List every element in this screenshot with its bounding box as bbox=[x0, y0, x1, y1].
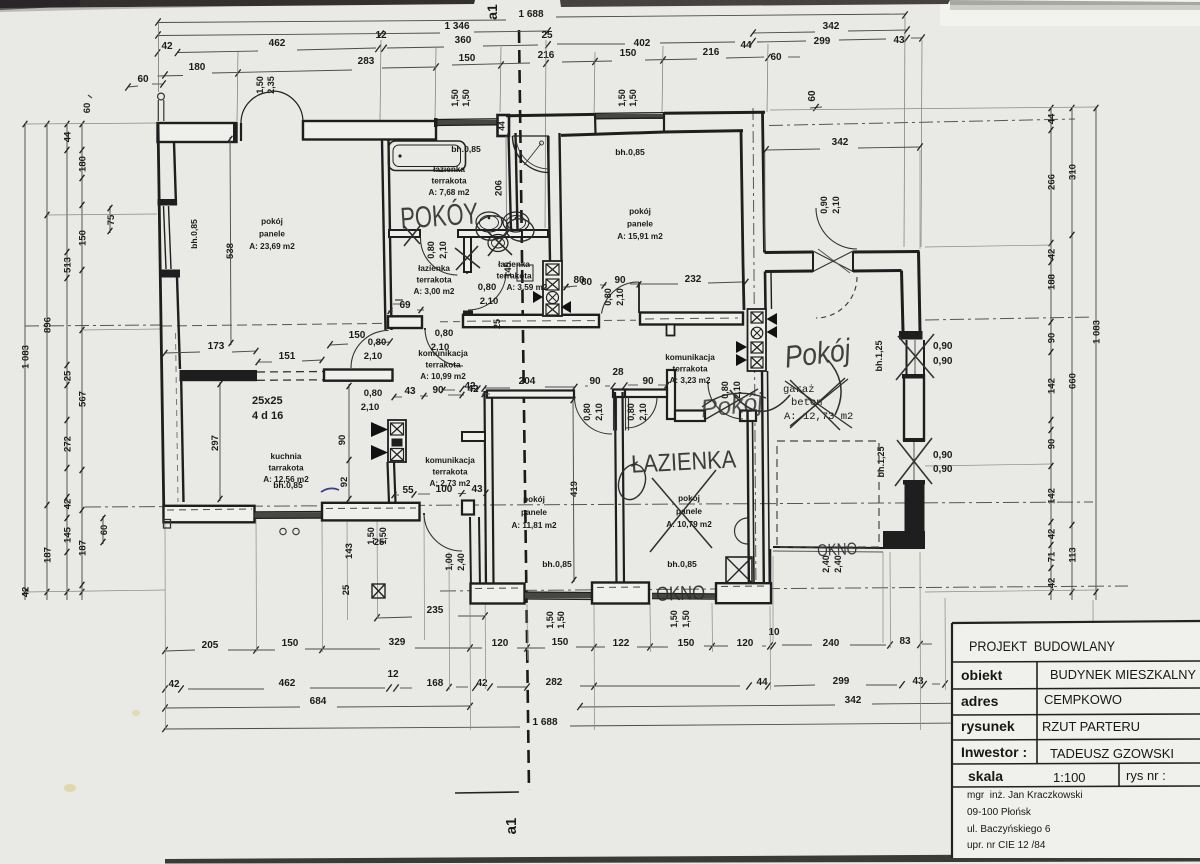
svg-text:0,80: 0,80 bbox=[603, 288, 613, 306]
svg-text:CEMPKOWO: CEMPKOWO bbox=[1044, 692, 1122, 707]
svg-text:0,80: 0,80 bbox=[426, 241, 436, 259]
svg-text:komunikacja: komunikacja bbox=[418, 349, 468, 358]
svg-text:513: 513 bbox=[63, 257, 74, 273]
svg-text:272: 272 bbox=[63, 436, 74, 452]
svg-text:1 083: 1 083 bbox=[1092, 320, 1103, 344]
svg-text:ul. Baczyńskiego 6: ul. Baczyńskiego 6 bbox=[967, 824, 1051, 835]
svg-text:terrakota: terrakota bbox=[425, 361, 460, 370]
svg-text:1,00: 1,00 bbox=[444, 553, 454, 571]
title block bbox=[952, 621, 1200, 858]
svg-text:42: 42 bbox=[63, 499, 74, 510]
svg-text:A: 2,73 m2: A: 2,73 m2 bbox=[430, 479, 471, 488]
svg-text:1 688: 1 688 bbox=[532, 717, 557, 728]
svg-text:25: 25 bbox=[541, 30, 553, 41]
svg-text:bh.0,85: bh.0,85 bbox=[542, 559, 572, 569]
svg-text:PROJEKT BUDOWLANY: PROJEKT BUDOWLANY bbox=[969, 638, 1116, 654]
svg-text:12: 12 bbox=[387, 669, 399, 680]
svg-text:2,10: 2,10 bbox=[361, 402, 380, 413]
svg-text:12: 12 bbox=[375, 30, 387, 41]
svg-text:180: 180 bbox=[189, 62, 206, 73]
svg-text:122: 122 bbox=[613, 638, 630, 649]
svg-text:180: 180 bbox=[78, 156, 89, 172]
svg-text:bh.0,85: bh.0,85 bbox=[667, 559, 697, 569]
svg-text:232: 232 bbox=[685, 274, 702, 285]
svg-text:342: 342 bbox=[845, 695, 862, 706]
svg-text:1 083: 1 083 bbox=[21, 345, 32, 369]
svg-text:0,90: 0,90 bbox=[933, 356, 953, 367]
svg-text:Inwestor :: Inwestor : bbox=[961, 744, 1027, 760]
svg-text:150: 150 bbox=[282, 638, 299, 649]
svg-text:310: 310 bbox=[1068, 164, 1079, 180]
svg-text:bh.0,85: bh.0,85 bbox=[273, 480, 303, 490]
svg-text:25x25: 25x25 bbox=[252, 395, 283, 407]
svg-text:235: 235 bbox=[427, 605, 444, 616]
svg-text:120: 120 bbox=[737, 638, 754, 649]
svg-text:0,80: 0,80 bbox=[364, 388, 383, 399]
left dimension chains bbox=[24, 124, 26, 600]
svg-text:142: 142 bbox=[1047, 378, 1058, 394]
svg-text:1,50: 1,50 bbox=[617, 89, 627, 107]
svg-text:terrakota: terrakota bbox=[432, 468, 467, 477]
svg-text:4 d 16: 4 d 16 bbox=[252, 410, 283, 422]
svg-text:A: 15,91 m2: A: 15,91 m2 bbox=[617, 232, 663, 241]
svg-text:TADEUSZ GZOWSKI: TADEUSZ GZOWSKI bbox=[1050, 746, 1174, 761]
svg-text:komunikacja: komunikacja bbox=[665, 353, 715, 362]
svg-text:2,10: 2,10 bbox=[364, 351, 383, 362]
svg-text:panele: panele bbox=[259, 230, 285, 239]
svg-text:216: 216 bbox=[703, 47, 720, 58]
svg-text:RZUT PARTERU: RZUT PARTERU bbox=[1042, 719, 1140, 734]
svg-text:bh.0,85: bh.0,85 bbox=[615, 147, 645, 157]
svg-text:A: 10,99 m2: A: 10,99 m2 bbox=[420, 372, 466, 381]
svg-text:bh.0,85: bh.0,85 bbox=[451, 144, 481, 154]
svg-text:1,50: 1,50 bbox=[461, 89, 471, 107]
svg-text:2,10: 2,10 bbox=[480, 296, 499, 307]
svg-text:0,80: 0,80 bbox=[626, 403, 636, 421]
svg-text:75: 75 bbox=[106, 214, 117, 225]
svg-text:42: 42 bbox=[1047, 249, 1058, 260]
svg-text:60: 60 bbox=[807, 90, 818, 102]
svg-text:896: 896 bbox=[43, 317, 54, 333]
svg-text:pokój: pokój bbox=[261, 217, 283, 226]
svg-text:71: 71 bbox=[1047, 551, 1058, 562]
svg-text:bh.1,25: bh.1,25 bbox=[874, 340, 884, 371]
svg-text:42: 42 bbox=[464, 381, 476, 392]
svg-text:2,10: 2,10 bbox=[594, 403, 604, 421]
svg-text:09-100 Płońsk: 09-100 Płońsk bbox=[967, 807, 1032, 818]
svg-text:bh.1,25: bh.1,25 bbox=[876, 446, 886, 477]
svg-text:upr. nr CIE 12 /84: upr. nr CIE 12 /84 bbox=[967, 840, 1046, 851]
svg-text:90: 90 bbox=[589, 376, 601, 387]
svg-text:0,90: 0,90 bbox=[933, 464, 953, 475]
svg-text:43: 43 bbox=[893, 35, 905, 46]
svg-text:44: 44 bbox=[497, 121, 507, 131]
svg-text:kuchnia: kuchnia bbox=[271, 452, 302, 461]
svg-text:bh.0,85: bh.0,85 bbox=[189, 219, 199, 249]
svg-text:44: 44 bbox=[740, 40, 752, 51]
svg-text:2,10: 2,10 bbox=[615, 288, 625, 306]
svg-text:28: 28 bbox=[612, 367, 624, 378]
svg-text:1:100: 1:100 bbox=[1053, 770, 1086, 785]
svg-text:1,50: 1,50 bbox=[556, 611, 566, 629]
svg-text:240: 240 bbox=[823, 638, 840, 649]
svg-text:60: 60 bbox=[99, 525, 110, 536]
svg-text:panele: panele bbox=[627, 220, 653, 229]
svg-text:terrakota: terrakota bbox=[496, 272, 531, 281]
svg-text:1 688: 1 688 bbox=[518, 9, 543, 20]
svg-text:terrakota: terrakota bbox=[431, 177, 466, 186]
svg-text:342: 342 bbox=[832, 137, 849, 148]
svg-text:42: 42 bbox=[161, 41, 173, 52]
svg-text:299: 299 bbox=[814, 36, 831, 47]
svg-text:2,10: 2,10 bbox=[831, 196, 841, 214]
svg-text:A: 3,23 m2: A: 3,23 m2 bbox=[670, 376, 711, 385]
svg-text:tarrakota: tarrakota bbox=[268, 464, 303, 473]
svg-text:60: 60 bbox=[770, 52, 782, 63]
svg-text:360: 360 bbox=[455, 35, 472, 46]
svg-text:A: 11,81 m2: A: 11,81 m2 bbox=[511, 521, 557, 530]
svg-text:1,50: 1,50 bbox=[255, 76, 265, 94]
svg-text:2,40: 2,40 bbox=[456, 553, 466, 571]
svg-text:OKNO: OKNO bbox=[656, 582, 706, 606]
svg-text:1,50: 1,50 bbox=[681, 610, 691, 628]
svg-text:90: 90 bbox=[614, 275, 626, 286]
svg-text:a1: a1 bbox=[503, 818, 520, 835]
svg-text:297: 297 bbox=[210, 435, 221, 451]
svg-text:80: 80 bbox=[573, 275, 585, 286]
svg-text:299: 299 bbox=[833, 676, 850, 687]
svg-text:92: 92 bbox=[339, 477, 350, 488]
right dimension chains bbox=[1050, 108, 1052, 600]
svg-text:mgr inż. Jan Kraczkowski: mgr inż. Jan Kraczkowski bbox=[967, 790, 1083, 801]
svg-text:113: 113 bbox=[1068, 547, 1079, 562]
svg-text:143: 143 bbox=[344, 543, 355, 559]
svg-text:90: 90 bbox=[1047, 333, 1058, 344]
svg-text:419: 419 bbox=[569, 481, 580, 497]
svg-text:43: 43 bbox=[404, 386, 416, 397]
svg-text:90: 90 bbox=[642, 376, 654, 387]
svg-text:43: 43 bbox=[912, 676, 924, 687]
svg-text:1,50: 1,50 bbox=[450, 89, 460, 107]
handwritten annotations bbox=[399, 197, 479, 235]
svg-text:POKÓY: POKÓY bbox=[399, 197, 479, 235]
svg-text:A: 23,69 m2: A: 23,69 m2 bbox=[249, 242, 295, 251]
svg-text:145: 145 bbox=[63, 526, 74, 543]
svg-text:łazienka: łazienka bbox=[418, 264, 450, 273]
svg-text:terrakota: terrakota bbox=[416, 276, 451, 285]
svg-text:2,10: 2,10 bbox=[438, 241, 448, 259]
svg-text:44: 44 bbox=[63, 131, 74, 142]
svg-text:90: 90 bbox=[337, 435, 348, 446]
svg-text:25: 25 bbox=[374, 537, 385, 548]
svg-text:150: 150 bbox=[678, 638, 695, 649]
svg-text:łazienka: łazienka bbox=[433, 165, 465, 174]
svg-text:25: 25 bbox=[492, 319, 502, 329]
svg-text:187: 187 bbox=[43, 547, 54, 563]
svg-text:90: 90 bbox=[1047, 439, 1058, 450]
svg-text:60: 60 bbox=[137, 74, 149, 85]
svg-text:204: 204 bbox=[519, 376, 536, 387]
svg-text:42: 42 bbox=[1047, 578, 1058, 589]
bathroom fixtures and interior partitions bbox=[389, 230, 420, 237]
svg-text:282: 282 bbox=[546, 677, 563, 688]
svg-text:0,90: 0,90 bbox=[819, 196, 829, 214]
svg-text:0,90: 0,90 bbox=[933, 341, 953, 352]
svg-text:173: 173 bbox=[208, 341, 225, 352]
svg-text:187: 187 bbox=[78, 540, 89, 556]
svg-text:panele: panele bbox=[521, 508, 547, 517]
svg-text:150: 150 bbox=[349, 330, 366, 341]
svg-text:25: 25 bbox=[341, 584, 352, 595]
svg-text:83: 83 bbox=[899, 636, 911, 647]
svg-text:1,50: 1,50 bbox=[628, 89, 638, 107]
svg-text:150: 150 bbox=[459, 53, 476, 64]
svg-text:0,80: 0,80 bbox=[435, 328, 454, 339]
svg-text:A: 3,59 m2: A: 3,59 m2 bbox=[507, 283, 548, 292]
svg-text:660: 660 bbox=[1068, 373, 1079, 389]
svg-text:684: 684 bbox=[310, 696, 327, 707]
svg-text:188: 188 bbox=[1047, 274, 1058, 290]
axis lines a1 and dash-dot construction axes bbox=[519, 30, 529, 790]
svg-text:skala: skala bbox=[968, 768, 1003, 784]
svg-text:151: 151 bbox=[279, 351, 296, 362]
svg-text:ŁAZIENKA: ŁAZIENKA bbox=[630, 445, 737, 478]
svg-text:pokój: pokój bbox=[523, 495, 545, 504]
svg-text:42: 42 bbox=[168, 679, 180, 690]
svg-text:462: 462 bbox=[269, 38, 286, 49]
svg-text:329: 329 bbox=[389, 637, 406, 648]
svg-text:a1: a1 bbox=[484, 4, 500, 20]
svg-text:266: 266 bbox=[1047, 174, 1058, 190]
svg-text:pokój: pokój bbox=[629, 207, 651, 216]
svg-text:0,80: 0,80 bbox=[582, 403, 592, 421]
svg-text:1,50: 1,50 bbox=[669, 610, 679, 628]
svg-text:komunikacja: komunikacja bbox=[425, 456, 475, 465]
svg-text:A: 7,68 m2: A: 7,68 m2 bbox=[429, 188, 470, 197]
svg-text:łazienka: łazienka bbox=[498, 260, 530, 269]
svg-text:0,80: 0,80 bbox=[478, 282, 497, 293]
svg-text:150: 150 bbox=[620, 48, 637, 59]
svg-text:terrakota: terrakota bbox=[672, 365, 707, 374]
svg-text:142: 142 bbox=[1047, 488, 1058, 504]
svg-text:42: 42 bbox=[476, 678, 488, 689]
svg-text:342: 342 bbox=[823, 21, 840, 32]
svg-text:462: 462 bbox=[279, 678, 296, 689]
svg-text:OKNO: OKNO bbox=[817, 539, 858, 560]
svg-text:rys nr :: rys nr : bbox=[1126, 768, 1166, 783]
svg-text:205: 205 bbox=[202, 640, 219, 651]
svg-text:44: 44 bbox=[1047, 113, 1058, 124]
svg-text:1,50: 1,50 bbox=[545, 611, 555, 629]
svg-text:120: 120 bbox=[492, 638, 509, 649]
svg-text:60: 60 bbox=[82, 103, 93, 114]
svg-text:55: 55 bbox=[402, 485, 414, 496]
svg-text:150: 150 bbox=[78, 230, 89, 246]
svg-text:168: 168 bbox=[427, 678, 444, 689]
svg-text:206: 206 bbox=[494, 180, 505, 196]
svg-text:1 346: 1 346 bbox=[444, 21, 469, 32]
svg-text:0,90: 0,90 bbox=[933, 450, 953, 461]
svg-text:BUDYNEK MIESZKALNY: BUDYNEK MIESZKALNY bbox=[1050, 667, 1196, 682]
svg-text:0,80: 0,80 bbox=[368, 337, 387, 348]
svg-text:rysunek: rysunek bbox=[961, 718, 1015, 734]
svg-text:adres: adres bbox=[961, 693, 999, 709]
svg-text:69: 69 bbox=[399, 300, 411, 311]
svg-text:283: 283 bbox=[358, 56, 375, 67]
svg-text:567: 567 bbox=[78, 391, 89, 407]
svg-text:A: 3,00 m2: A: 3,00 m2 bbox=[414, 287, 455, 296]
building walls bbox=[158, 123, 237, 142]
svg-text:43: 43 bbox=[471, 484, 483, 495]
svg-text:2,10: 2,10 bbox=[638, 403, 648, 421]
svg-text:pokój: pokój bbox=[678, 494, 700, 503]
svg-text:44: 44 bbox=[756, 677, 768, 688]
svg-text:150: 150 bbox=[552, 637, 569, 648]
svg-text:25: 25 bbox=[63, 370, 74, 381]
svg-text:obiekt: obiekt bbox=[961, 667, 1003, 683]
svg-text:42: 42 bbox=[1047, 529, 1058, 540]
